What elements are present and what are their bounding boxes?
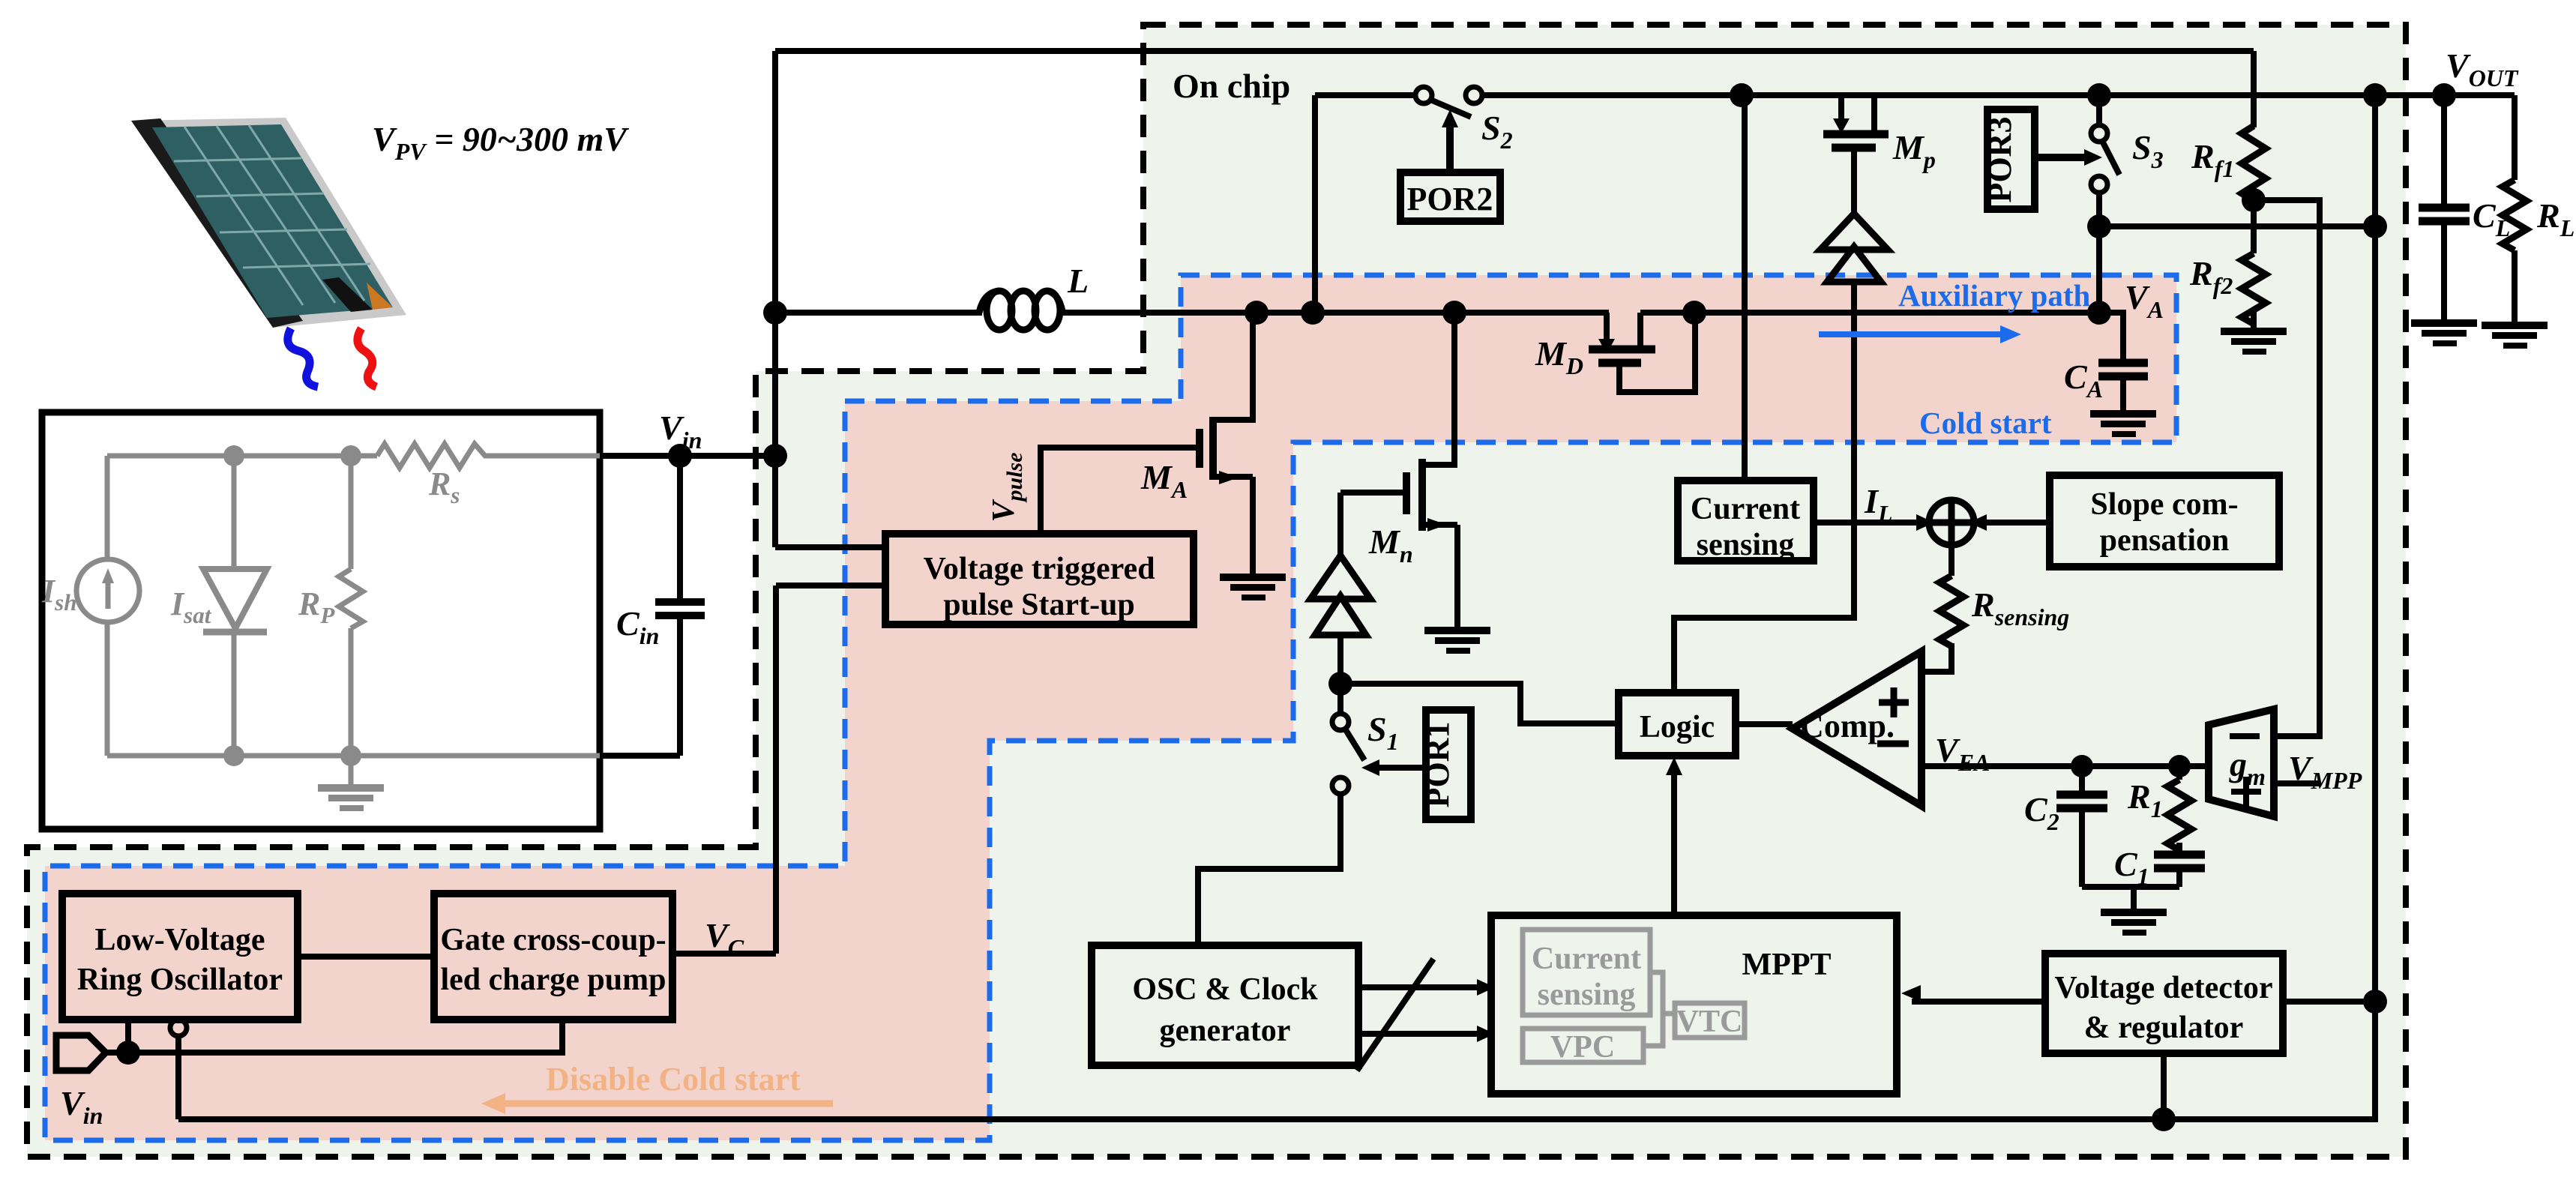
svg-text:Auxiliary path: Auxiliary path xyxy=(1898,278,2090,313)
svg-text:generator: generator xyxy=(1160,1014,1291,1048)
svg-text:VPC: VPC xyxy=(1550,1030,1615,1065)
svg-text:led charge pump: led charge pump xyxy=(440,963,666,997)
svg-text:CL: CL xyxy=(2473,196,2510,241)
svg-text:VOUT: VOUT xyxy=(2446,46,2519,91)
svg-text:POR3: POR3 xyxy=(1981,117,2018,203)
svg-text:MPPT: MPPT xyxy=(1742,948,1832,982)
svg-text:POR2: POR2 xyxy=(1407,181,1493,217)
svg-text:Comp.: Comp. xyxy=(1800,708,1895,744)
svg-text:Cold start: Cold start xyxy=(1919,406,2052,440)
svg-text:Current: Current xyxy=(1691,492,1800,526)
svg-text:Low-Voltage: Low-Voltage xyxy=(94,923,265,957)
svg-text:VPV = 90~300 mV: VPV = 90~300 mV xyxy=(372,120,629,165)
svg-text:On chip: On chip xyxy=(1173,67,1290,105)
svg-text:pensation: pensation xyxy=(2100,523,2230,558)
svg-text:& regulator: & regulator xyxy=(2084,1011,2244,1045)
svg-text:sensing: sensing xyxy=(1697,528,1795,562)
svg-text:L: L xyxy=(1067,262,1089,300)
svg-text:Gate cross-coup-: Gate cross-coup- xyxy=(440,923,666,957)
svg-text:pulse Start-up: pulse Start-up xyxy=(943,588,1135,622)
svg-text:Slope com-: Slope com- xyxy=(2090,487,2238,522)
svg-text:Logic: Logic xyxy=(1640,710,1715,744)
svg-text:OSC & Clock: OSC & Clock xyxy=(1132,972,1318,1007)
svg-text:sensing: sensing xyxy=(1538,978,1636,1012)
svg-text:Voltage detector: Voltage detector xyxy=(2054,971,2272,1005)
svg-text:Disable Cold start: Disable Cold start xyxy=(546,1061,801,1098)
svg-text:Current: Current xyxy=(1532,942,1641,976)
svg-text:POR1: POR1 xyxy=(1419,722,1456,808)
svg-text:Cin: Cin xyxy=(616,604,659,649)
svg-text:Voltage triggered: Voltage triggered xyxy=(923,552,1155,586)
svg-text:RL: RL xyxy=(2536,196,2575,241)
svg-text:Ring Oscillator: Ring Oscillator xyxy=(77,963,283,997)
svg-text:VTC: VTC xyxy=(1676,1005,1743,1039)
